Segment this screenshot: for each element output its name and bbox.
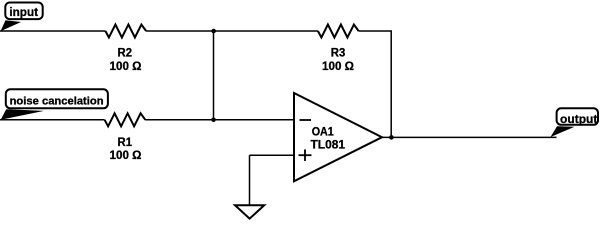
- svg-text:output: output: [560, 112, 597, 126]
- svg-text:noise cancelation: noise cancelation: [10, 96, 104, 108]
- svg-text:R3: R3: [331, 46, 346, 60]
- svg-text:100 Ω: 100 Ω: [110, 59, 142, 73]
- svg-text:input: input: [9, 5, 38, 19]
- svg-text:R2: R2: [118, 46, 133, 60]
- svg-text:TL081: TL081: [311, 138, 346, 152]
- svg-text:100 Ω: 100 Ω: [322, 59, 354, 73]
- svg-text:100 Ω: 100 Ω: [110, 148, 142, 162]
- svg-text:OA1: OA1: [312, 125, 334, 139]
- svg-text:R1: R1: [118, 135, 133, 149]
